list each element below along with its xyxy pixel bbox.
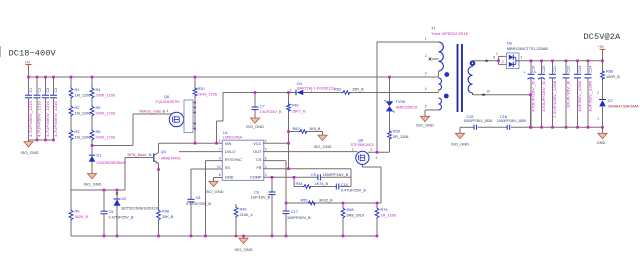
- svg-text:DC18~400V: DC18~400V: [9, 49, 57, 59]
- svg-text:1000PF/3KV_1808: 1000PF/3KV_1808: [497, 119, 526, 123]
- svg-text:C4: C4: [54, 88, 58, 93]
- svg-text:C22: C22: [566, 66, 570, 73]
- svg-text:1: 1: [311, 88, 313, 92]
- svg-text:200K_1206: 200K_1206: [96, 94, 115, 98]
- svg-text:LM5023NA: LM5023NA: [223, 135, 242, 139]
- svg-text:18K7_B: 18K7_B: [292, 110, 306, 114]
- svg-text:6: 6: [265, 156, 267, 160]
- svg-text:4.7UF/450V_1210: 4.7UF/450V_1210: [37, 101, 41, 137]
- svg-text:ISO_GND: ISO_GND: [206, 189, 224, 194]
- svg-text:20K_B: 20K_B: [162, 215, 174, 219]
- svg-text:C17: C17: [291, 210, 298, 214]
- svg-text:362K_B: 362K_B: [75, 215, 89, 219]
- svg-text:ISO_GND: ISO_GND: [235, 247, 253, 252]
- svg-text:1: 1: [352, 148, 354, 152]
- svg-text:T1: T1: [431, 27, 435, 31]
- svg-text:1: 1: [597, 117, 599, 121]
- svg-text:NPN_Base: NPN_Base: [128, 153, 147, 157]
- svg-text:SS: SS: [225, 165, 231, 170]
- svg-text:Q8: Q8: [358, 139, 363, 143]
- svg-text:R5: R5: [96, 106, 101, 110]
- svg-text:2K49_1206: 2K49_1206: [198, 93, 217, 97]
- svg-text:2: 2: [597, 91, 599, 95]
- svg-text:C2: C2: [37, 88, 41, 93]
- svg-text:1000PF/3KV_1826: 1000PF/3KV_1826: [464, 119, 493, 123]
- svg-text:VCC: VCC: [253, 141, 261, 146]
- svg-text:0.47UF/25V_B: 0.47UF/25V_B: [109, 216, 134, 220]
- svg-text:TVS8: TVS8: [396, 100, 406, 104]
- svg-text:100PF/50V_B: 100PF/50V_B: [287, 216, 311, 220]
- svg-text:470UF/16V_D: 470UF/16V_D: [531, 81, 535, 112]
- svg-text:1K74_B: 1K74_B: [315, 182, 329, 186]
- svg-text:UVLO: UVLO: [225, 149, 236, 154]
- svg-text:3: 3: [521, 56, 523, 60]
- svg-text:ISO_GND: ISO_GND: [416, 123, 434, 128]
- svg-text:GND: GND: [225, 174, 234, 179]
- svg-text:NMOS_Gate: NMOS_Gate: [140, 110, 162, 114]
- svg-text:C1: C1: [29, 88, 33, 93]
- svg-text:COMP: COMP: [250, 174, 262, 179]
- svg-text:RT/SYNC: RT/SYNC: [225, 157, 242, 162]
- svg-text:D1: D1: [97, 154, 102, 158]
- svg-text:R68: R68: [347, 208, 354, 212]
- svg-text:4.7UF/450V_1210: 4.7UF/450V_1210: [46, 101, 50, 137]
- svg-text:5: 5: [425, 105, 427, 109]
- svg-text:C5: C5: [109, 210, 114, 214]
- svg-text:+5V: +5V: [598, 45, 605, 49]
- svg-text:D2: D2: [122, 197, 127, 201]
- svg-text:10: 10: [487, 89, 491, 93]
- svg-text:3: 3: [376, 156, 378, 160]
- svg-text:5: 5: [265, 147, 267, 151]
- svg-text:BAV21W-7-F/SOD123: BAV21W-7-F/SOD123: [297, 86, 335, 90]
- svg-text:R3: R3: [75, 130, 80, 134]
- svg-text:R30: R30: [198, 87, 205, 91]
- svg-text:R48: R48: [162, 210, 169, 214]
- svg-text:C20: C20: [542, 66, 546, 73]
- svg-text:SM4A4733A/SMA: SM4A4733A/SMA: [608, 105, 639, 109]
- svg-text:3: 3: [265, 173, 267, 177]
- svg-text:OUT: OUT: [253, 149, 262, 154]
- svg-text:C7: C7: [260, 105, 265, 109]
- svg-text:4: 4: [167, 109, 169, 113]
- svg-text:1M_1206: 1M_1206: [75, 112, 91, 116]
- svg-text:0R_1206: 0R_1206: [393, 135, 408, 139]
- svg-text:DC5V@2A: DC5V@2A: [584, 32, 622, 42]
- svg-text:C23: C23: [578, 66, 582, 73]
- svg-text:6R8_2010: 6R8_2010: [347, 214, 365, 218]
- svg-text:2.2UF/100V_1206: 2.2UF/100V_1206: [553, 81, 557, 118]
- svg-text:2: 2: [371, 148, 373, 152]
- svg-text:C6: C6: [254, 190, 259, 194]
- svg-text:15R_B: 15R_B: [352, 88, 364, 92]
- svg-text:Q4: Q4: [161, 150, 166, 154]
- svg-text:HV: HV: [25, 61, 31, 65]
- svg-text:MBR1260CT/TO-220AB: MBR1260CT/TO-220AB: [507, 47, 548, 51]
- svg-text:C24: C24: [588, 66, 592, 73]
- svg-text:R54: R54: [296, 182, 303, 186]
- svg-text:1500PF/16V_B: 1500PF/16V_B: [323, 173, 349, 177]
- svg-text:+: +: [524, 71, 526, 75]
- svg-text:0.47UF/25V_B: 0.47UF/25V_B: [341, 188, 366, 192]
- svg-text:1M_1206: 1M_1206: [75, 136, 91, 140]
- svg-text:CMZ5929B/SMA: CMZ5929B/SMA: [97, 161, 126, 165]
- svg-text:R4: R4: [96, 88, 101, 92]
- svg-text:ISO_GND: ISO_GND: [314, 144, 332, 149]
- svg-text:2: 2: [502, 60, 504, 64]
- svg-text:1K5_B: 1K5_B: [309, 127, 321, 131]
- svg-text:200K_1206: 200K_1206: [96, 112, 115, 116]
- svg-text:10: 10: [217, 165, 221, 169]
- svg-text:R62: R62: [293, 127, 300, 131]
- svg-text:4.7UF/450V_1210: 4.7UF/450V_1210: [54, 101, 58, 137]
- svg-text:D7: D7: [608, 99, 613, 103]
- svg-text:C9: C9: [311, 173, 316, 177]
- svg-text:0.47UF/25V_B: 0.47UF/25V_B: [186, 202, 211, 206]
- svg-text:R1: R1: [75, 88, 80, 92]
- svg-text:Trans VIPER22-EE16: Trans VIPER22-EE16: [431, 32, 468, 36]
- svg-text:ISO_GND: ISO_GND: [84, 182, 102, 187]
- svg-text:ISO_GND: ISO_GND: [246, 124, 264, 129]
- svg-text:FQL2N100TM: FQL2N100TM: [156, 100, 180, 104]
- svg-text:R59: R59: [393, 130, 400, 134]
- svg-text:1UF/50V_1206: 1UF/50V_1206: [578, 81, 582, 112]
- svg-text:R63: R63: [334, 88, 341, 92]
- svg-text:1UF/50V_1206: 1UF/50V_1206: [588, 81, 592, 112]
- svg-text:7: 7: [219, 147, 221, 151]
- svg-text:+: +: [534, 71, 536, 75]
- svg-text:GND: GND: [597, 140, 606, 145]
- svg-text:10UF/25V_B: 10UF/25V_B: [260, 110, 282, 114]
- svg-text:C10: C10: [341, 183, 348, 187]
- svg-text:1UF/16V_B: 1UF/16V_B: [251, 195, 271, 199]
- svg-text:MMBT4401: MMBT4401: [161, 157, 181, 161]
- svg-text:R66: R66: [606, 70, 613, 74]
- svg-text:1R_1206: 1R_1206: [381, 214, 396, 218]
- svg-text:8: 8: [219, 173, 221, 177]
- svg-text:215K_4: 215K_4: [240, 213, 253, 217]
- svg-text:R49: R49: [240, 208, 247, 212]
- svg-text:Q6: Q6: [164, 95, 169, 99]
- svg-text:200K_1206: 200K_1206: [96, 136, 115, 140]
- svg-text:R55: R55: [301, 199, 308, 203]
- svg-text:C8: C8: [196, 196, 201, 200]
- svg-text:CS: CS: [256, 157, 262, 162]
- svg-text:470UF/16V_D: 470UF/16V_D: [542, 81, 546, 112]
- svg-text:BZT52C6V8/SOD123: BZT52C6V8/SOD123: [122, 207, 159, 211]
- svg-text:D6: D6: [507, 42, 512, 46]
- svg-text:1M_1206: 1M_1206: [75, 94, 91, 98]
- svg-text:1: 1: [496, 52, 498, 56]
- svg-text:100R_B: 100R_B: [606, 75, 620, 79]
- svg-text:C21: C21: [553, 66, 557, 73]
- svg-text:VIN: VIN: [225, 141, 232, 146]
- svg-text:8: 8: [493, 55, 495, 59]
- svg-text:R6: R6: [96, 130, 101, 134]
- svg-text:SMBJ250CA: SMBJ250CA: [396, 106, 418, 110]
- svg-text:2: 2: [290, 88, 292, 92]
- svg-text:4: 4: [265, 139, 267, 143]
- svg-text:ISO_GND: ISO_GND: [21, 150, 39, 155]
- svg-text:FB: FB: [257, 165, 262, 170]
- svg-text:3: 3: [425, 72, 427, 76]
- svg-text:1: 1: [219, 139, 221, 143]
- svg-text:R61: R61: [292, 104, 299, 108]
- svg-text:R9: R9: [75, 210, 80, 214]
- svg-text:3K32_B: 3K32_B: [319, 199, 333, 203]
- svg-text:STF5NK100Z: STF5NK100Z: [351, 143, 375, 147]
- svg-text:1: 1: [425, 37, 427, 41]
- svg-text:4.7UF/450V_1210: 4.7UF/450V_1210: [29, 101, 33, 137]
- svg-text:4: 4: [425, 87, 427, 91]
- svg-text:R79: R79: [381, 208, 388, 212]
- svg-text:ISO_GND: ISO_GND: [451, 142, 469, 147]
- svg-text:C3: C3: [46, 88, 50, 93]
- svg-text:R2: R2: [75, 106, 80, 110]
- svg-text:9: 9: [219, 156, 221, 160]
- svg-text:2: 2: [425, 54, 427, 58]
- svg-text:10UF/16V_B: 10UF/16V_B: [566, 80, 570, 108]
